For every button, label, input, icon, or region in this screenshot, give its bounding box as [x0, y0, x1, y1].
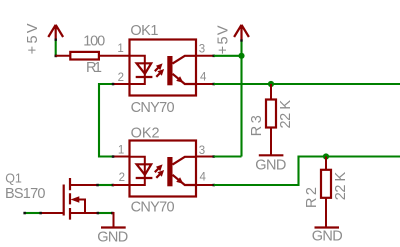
OK1 LED cathode bar [136, 76, 153, 78]
junction node R3 top [268, 81, 274, 87]
svg-text:OK2: OK2 [131, 125, 160, 141]
power +5V symbol P2 [215, 25, 249, 55]
OK1 optical arrow 1 [155, 63, 163, 71]
dark dot +5V P2 stem [240, 39, 242, 41]
dark dot Q1 drain wire right [112, 184, 115, 187]
dark dot OK1 pin3 [213, 55, 216, 58]
svg-text:CNY70: CNY70 [131, 100, 175, 116]
dark dot Q1 drain wire left [96, 184, 99, 187]
power +5V symbol P1 [25, 23, 63, 54]
OK2 LED anode path [130, 157, 145, 178]
Q1 channel dashes [69, 178, 71, 220]
svg-text:2: 2 [119, 172, 125, 184]
OK1 LED cathode path [130, 77, 145, 84]
OK2 box [130, 141, 197, 197]
svg-text:100: 100 [83, 34, 105, 50]
svg-text:OK1: OK1 [130, 23, 158, 39]
dark dot Q1 gate wire left end [23, 212, 26, 215]
optocoupler OK1 CNY70 [130, 40, 197, 96]
wire Q1 drain to OK2 pin2 [98, 184, 113, 186]
svg-text:+5V: +5V [215, 25, 231, 54]
svg-text:BS170: BS170 [5, 186, 46, 202]
OK2 emitter arrowhead [176, 177, 183, 184]
OK2 optical arrow 1 [155, 164, 163, 172]
junction node R2 top [323, 153, 329, 159]
pin stub OK2 pin4 [196, 184, 214, 186]
wire Q1 source [98, 212, 113, 214]
svg-text:R1: R1 [86, 60, 102, 76]
wire corner dark dot at R1 left [55, 55, 58, 58]
ground symbol GND Q1 [97, 228, 128, 246]
optocoupler OK2 CNY70 [130, 141, 197, 197]
wire OK2 pin4 to R2 node and right edge [214, 157, 400, 186]
ground symbol GND R2 [312, 228, 343, 245]
svg-text:GND: GND [255, 158, 286, 174]
wire OK1 pin2 to OK2 pin1 [99, 84, 113, 157]
OK1 collector [173, 56, 197, 64]
dark dot OK2 pin3 [213, 155, 216, 158]
OK2 optical arrow 2 [156, 170, 164, 178]
resistor R3 [266, 84, 276, 155]
dark dot OK2 pin1 [112, 155, 115, 158]
wire +5V P2 vertical [240, 40, 242, 157]
pin stub OK1 pin3 [196, 55, 214, 57]
resistor R2 [321, 157, 331, 227]
transistor Q1 BS170 [64, 178, 85, 220]
svg-text:Q1: Q1 [5, 171, 22, 185]
svg-text:GND: GND [97, 229, 128, 245]
svg-text:3: 3 [199, 43, 205, 55]
pin stub Q1 source [70, 212, 98, 214]
pin stub OK1 pin2 [113, 83, 130, 85]
dark dot OK1 pin2 [112, 83, 115, 86]
OK2 phototransistor base bar [167, 157, 172, 186]
wire +5V P1 stem [55, 39, 57, 57]
Q1 bulk arrow [78, 200, 85, 214]
wire Q1 source to GND [112, 213, 113, 227]
svg-text:4: 4 [200, 172, 207, 184]
svg-text:3: 3 [199, 145, 205, 157]
svg-text:+5V: +5V [25, 23, 41, 54]
OK2 emitter [173, 175, 197, 185]
ground symbol GND R3 [255, 155, 286, 173]
OK2 LED triangle [137, 164, 152, 175]
svg-text:4: 4 [200, 72, 207, 84]
svg-text:CNY70: CNY70 [131, 200, 175, 216]
junction dark dot at +5V P1 stem [55, 39, 57, 41]
Q1 gate line [63, 185, 65, 216]
Q1 bulk arrowhead [71, 196, 80, 202]
OK1 LED anode path [130, 56, 145, 77]
resistor R1 [56, 52, 130, 60]
pin stub OK2 pin3 [196, 156, 214, 158]
OK2 LED cathode path [130, 178, 145, 185]
svg-text:22 K: 22 K [278, 100, 294, 129]
wire OK2 pin3 to +5V vertical [214, 155, 242, 157]
svg-text:1: 1 [118, 144, 124, 156]
pin stub Q1 gate [41, 212, 64, 214]
dark dot Q1 gate stub [39, 212, 42, 215]
wire OK1 pin4 net to right edge [214, 83, 400, 85]
OK1 LED triangle [137, 63, 152, 74]
dark dot Q1 source wire right [111, 212, 114, 215]
wire Q1 gate [25, 212, 41, 214]
junction node +5V P2 [238, 53, 244, 59]
dark dot OK2 pin4 [213, 184, 216, 187]
OK1 emitter [173, 74, 197, 84]
pin stub Q1 drain [70, 184, 98, 186]
svg-text:2: 2 [118, 72, 124, 84]
dark dot OK1 pin4 [213, 83, 216, 86]
OK1 optical arrow 2 [156, 69, 164, 77]
dark dot Q1 source wire left [97, 212, 100, 215]
svg-text:22 K: 22 K [333, 171, 349, 200]
pin stub OK2 pin1 [113, 156, 130, 158]
wire OK1 pin3 to +5V node [214, 55, 242, 57]
svg-text:1: 1 [117, 43, 123, 55]
pin stub OK1 pin4 [196, 83, 214, 85]
pin stub OK2 pin2 [113, 184, 130, 186]
OK2 LED cathode bar [136, 177, 153, 179]
svg-text:GND: GND [312, 228, 343, 244]
OK1 box [130, 40, 197, 96]
OK1 phototransistor base bar [167, 56, 172, 85]
OK1 emitter arrowhead [176, 76, 183, 83]
OK2 collector [173, 157, 197, 165]
